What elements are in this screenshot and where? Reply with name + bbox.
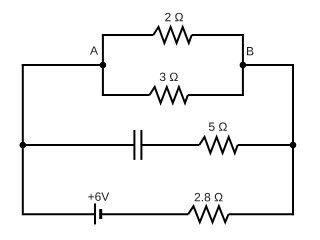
wire middle row right of R3 xyxy=(238,144,293,146)
wire top branch right of R1 xyxy=(192,34,244,36)
node A junction dot xyxy=(100,62,107,69)
wire top row right (node B to right rail) xyxy=(243,64,294,66)
resistor R1 2 ohm zigzag xyxy=(153,27,191,43)
junction dot left rail / middle row xyxy=(20,142,27,149)
wire top branch left of R1 xyxy=(102,34,153,36)
wire node A vertical branch xyxy=(102,34,104,96)
resistor R3 5 ohm zigzag xyxy=(199,137,237,153)
wire middle row between capacitor C1 and R3 xyxy=(141,144,199,146)
node B junction dot xyxy=(240,62,247,69)
wire bottom branch right of R2 xyxy=(188,94,244,96)
wire middle row left (left rail to capacitor C1) xyxy=(23,144,135,146)
wire top row left (left rail to node A) xyxy=(22,64,103,66)
resistor R4 2.8 ohm zigzag xyxy=(188,206,228,222)
junction dot right rail / middle row xyxy=(290,142,297,149)
resistor R2 3 ohm zigzag xyxy=(150,87,188,103)
wire bottom row between battery V1 and R4 xyxy=(101,213,189,215)
node A label xyxy=(90,46,98,54)
wire bottom branch left of R2 xyxy=(102,94,150,96)
resistor R2 value label 3 ohm xyxy=(160,73,178,81)
node B label xyxy=(247,47,253,55)
wire right rail xyxy=(292,64,294,215)
resistor R1 value label 2 ohm xyxy=(165,13,183,21)
capacitor C1 left plate xyxy=(133,130,135,160)
wire bottom row right of R4 xyxy=(229,213,295,215)
wire bottom row left (left rail to battery V1) xyxy=(23,213,95,215)
resistor R4 value label 2.8 ohm xyxy=(195,193,223,201)
capacitor C1 right plate xyxy=(140,130,142,160)
wire node B vertical branch xyxy=(242,34,244,96)
wire left rail xyxy=(22,64,24,215)
battery V1 value label +6V xyxy=(88,192,109,200)
battery V1 long positive plate xyxy=(94,203,96,224)
resistor R3 value label 5 ohm xyxy=(209,122,227,130)
battery V1 short negative plate xyxy=(99,209,102,219)
